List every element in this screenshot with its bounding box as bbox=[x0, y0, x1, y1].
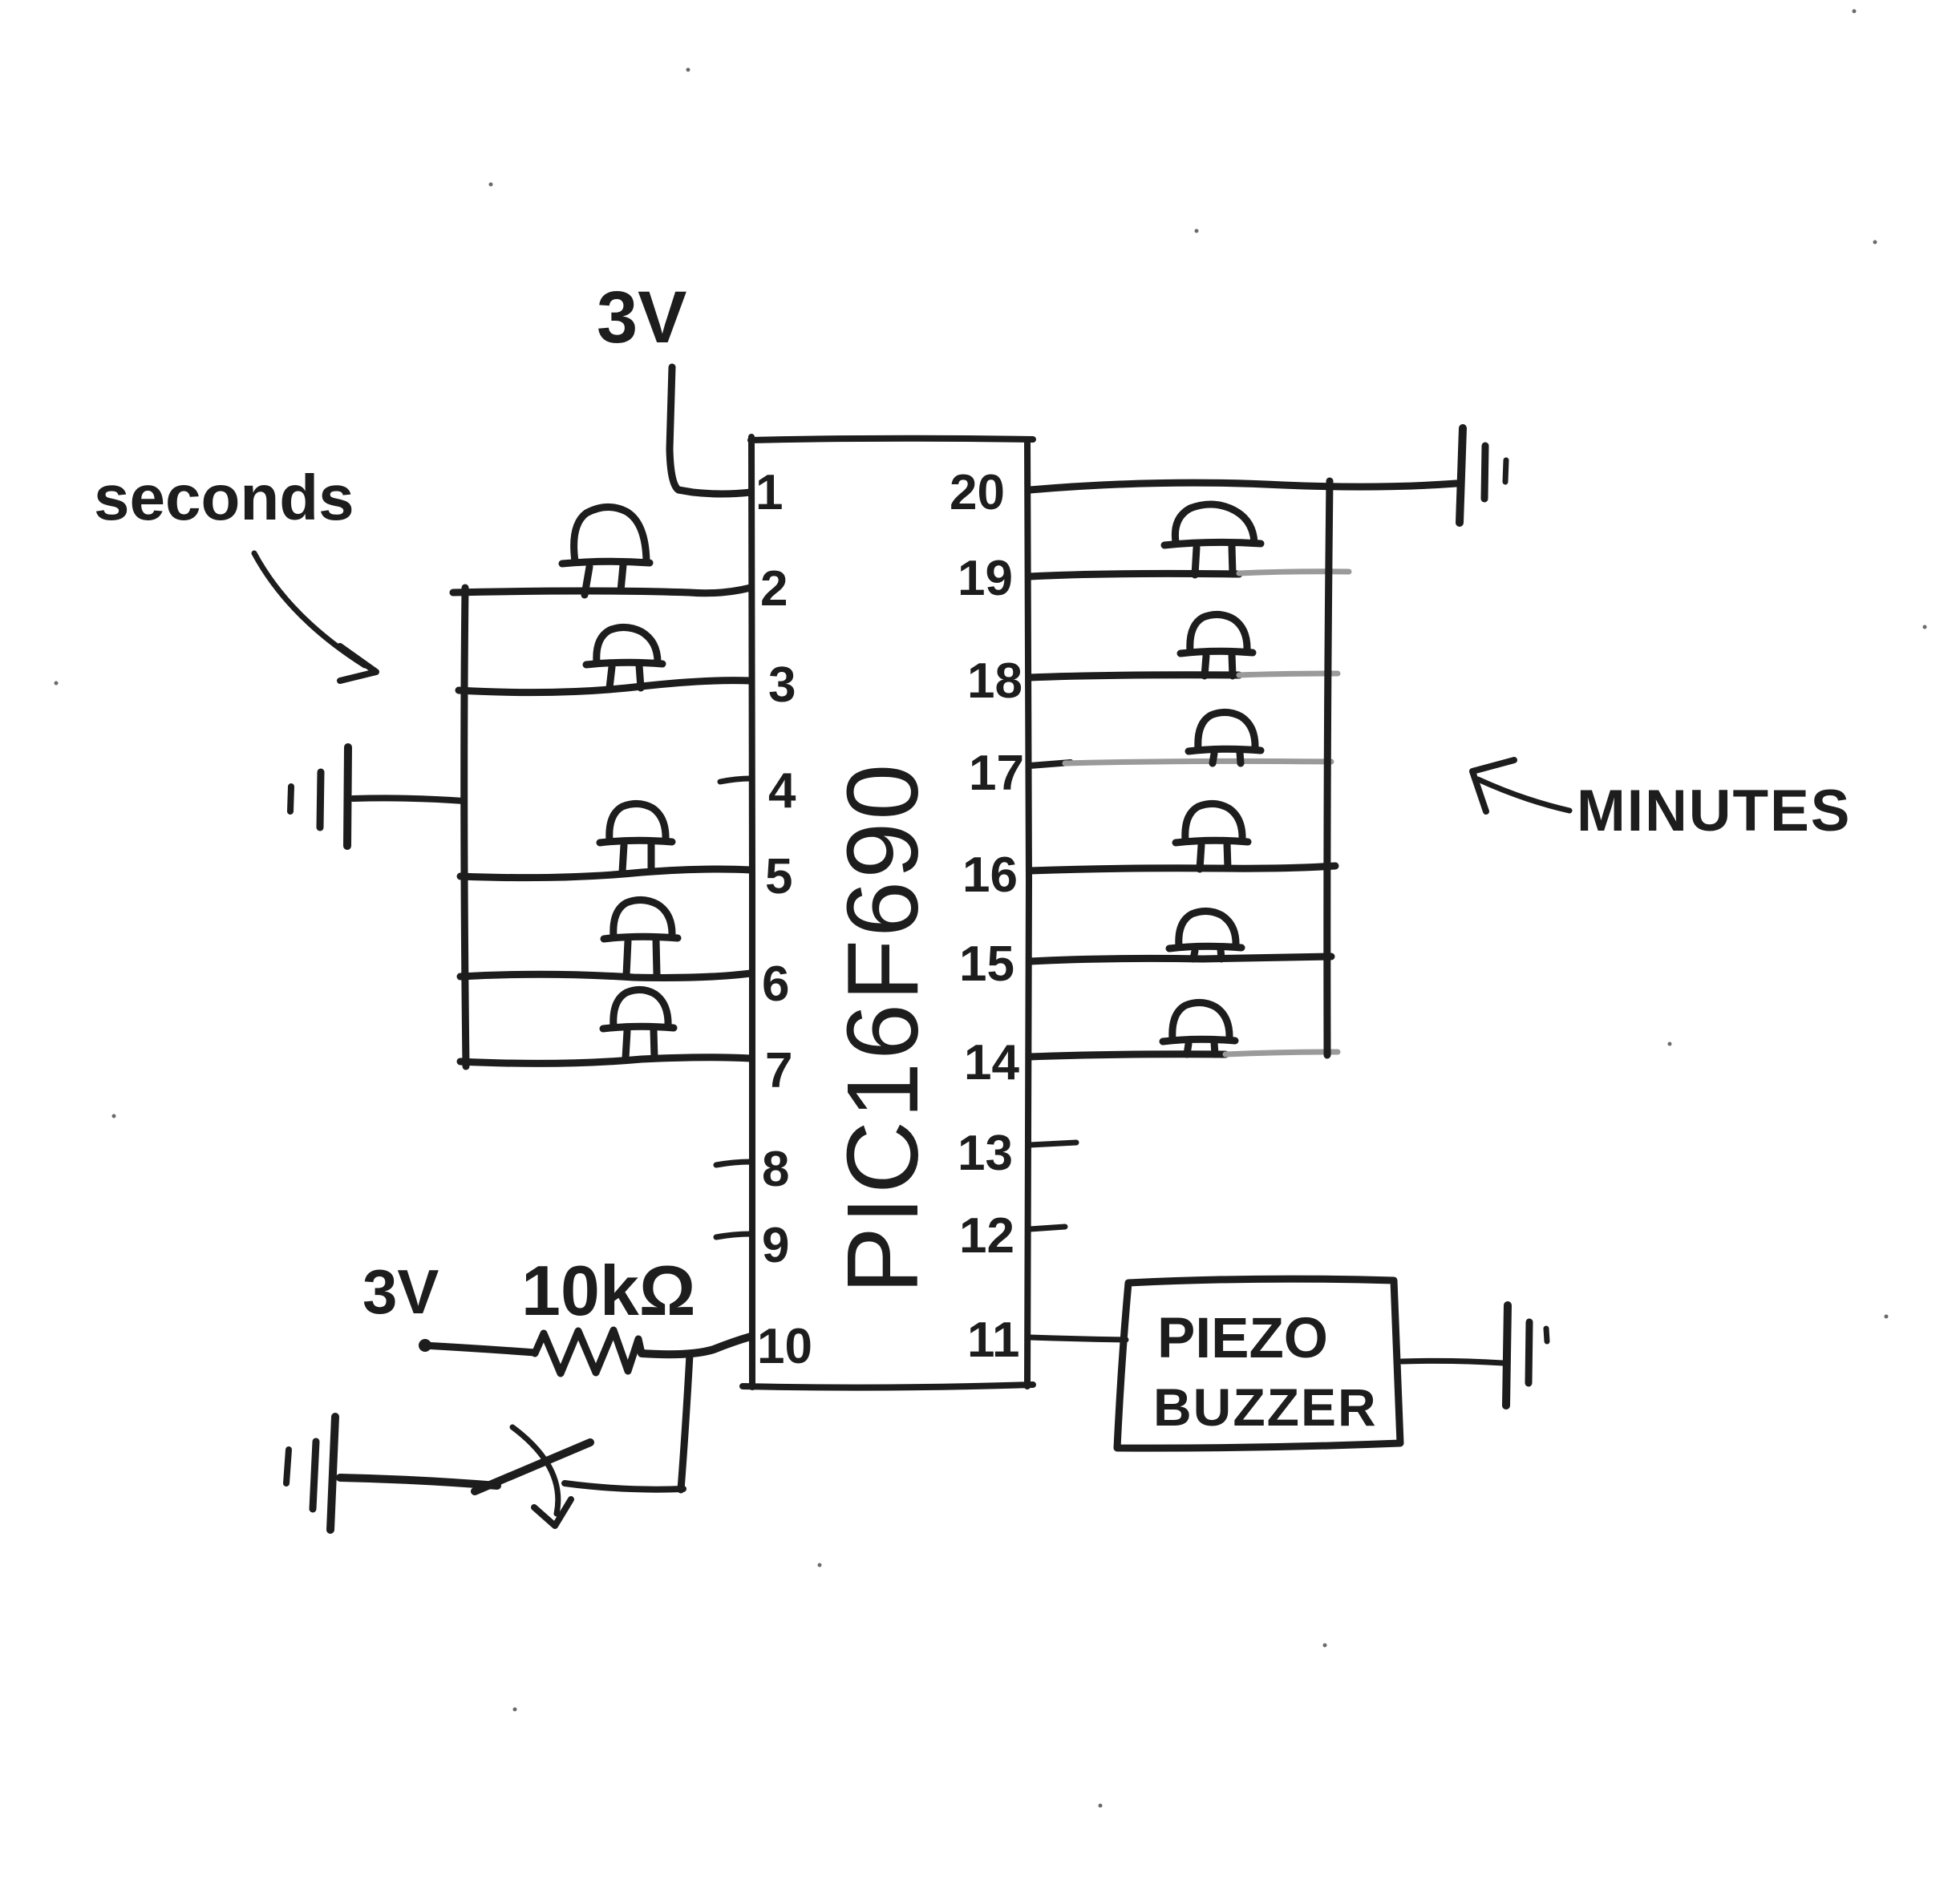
svg-text:MINUTES: MINUTES bbox=[1577, 779, 1852, 843]
wire from 3V to pin 1 bbox=[670, 367, 751, 494]
svg-text:9: 9 bbox=[762, 1218, 789, 1273]
wire pin7 to bus bbox=[460, 1058, 751, 1064]
svg-text:10: 10 bbox=[757, 1319, 812, 1374]
svg-text:12: 12 bbox=[959, 1208, 1014, 1264]
LED D5 (pin 7) bbox=[603, 989, 674, 1058]
svg-text:PIEZO: PIEZO bbox=[1157, 1307, 1328, 1370]
svg-text:16: 16 bbox=[962, 847, 1018, 903]
stub pin 8 bbox=[716, 1162, 751, 1165]
wire pin14 to bus bbox=[1030, 1054, 1225, 1057]
wire switch to junction bbox=[565, 1483, 683, 1490]
svg-text:7: 7 bbox=[765, 1043, 792, 1098]
arrow over switch bbox=[512, 1427, 558, 1514]
wire pin2 to bus bbox=[453, 588, 751, 593]
LED D4 (pin 6) bbox=[604, 900, 678, 975]
node left bus bbox=[464, 588, 466, 1066]
wire pin18 to bus bbox=[1030, 675, 1239, 677]
wire ground to switch bbox=[340, 1478, 497, 1486]
svg-text:15: 15 bbox=[959, 936, 1014, 992]
wire pin5 to bus bbox=[460, 869, 751, 878]
LED D9 (pin 16) bbox=[1176, 803, 1248, 869]
wire junction down to switch bbox=[681, 1355, 690, 1490]
wire pin11 to buzzer bbox=[1030, 1337, 1126, 1340]
arrow from seconds label bbox=[254, 553, 365, 665]
svg-text:2: 2 bbox=[760, 561, 788, 617]
wire pin17 to bus (faint) bbox=[1030, 762, 1071, 766]
svg-text:10kΩ: 10kΩ bbox=[521, 1251, 695, 1330]
stub pin 13 bbox=[1030, 1143, 1076, 1145]
LED D2 (pin 3) bbox=[586, 627, 662, 688]
LED D7 (pin 18) bbox=[1180, 614, 1253, 676]
svg-text:6: 6 bbox=[762, 957, 789, 1012]
resistor R1 10k bbox=[535, 1330, 642, 1373]
wire pin3 to bus bbox=[459, 681, 751, 693]
svg-text:17: 17 bbox=[969, 746, 1024, 801]
svg-text:4: 4 bbox=[768, 763, 796, 819]
svg-text:5: 5 bbox=[765, 849, 792, 904]
wire pin16 to bus bbox=[1030, 866, 1335, 871]
svg-text:3V: 3V bbox=[362, 1256, 439, 1327]
svg-text:11: 11 bbox=[967, 1313, 1020, 1368]
svg-text:PIC16F690: PIC16F690 bbox=[826, 762, 939, 1294]
node right bus bbox=[1327, 481, 1330, 1055]
piezo buzzer bbox=[1117, 1279, 1400, 1448]
svg-text:19: 19 bbox=[958, 551, 1013, 606]
IC U1 PIC16F690 (20-pin DIP body) bbox=[743, 437, 1033, 1388]
wire resistor to pin 10 bbox=[642, 1337, 751, 1354]
LED D1 (pin 2) bbox=[562, 507, 650, 595]
svg-text:13: 13 bbox=[958, 1126, 1013, 1181]
LED D11 (pin 14) bbox=[1163, 1002, 1235, 1054]
wire pin15 to bus bbox=[1030, 957, 1331, 961]
stub pin 9 bbox=[716, 1234, 751, 1237]
LED D6 (pin 19) bbox=[1164, 504, 1261, 575]
svg-text:BUZZER: BUZZER bbox=[1153, 1377, 1378, 1437]
svg-text:18: 18 bbox=[967, 653, 1023, 709]
stub pin 12 bbox=[1030, 1227, 1065, 1229]
wire pin20 to ground (top right) bbox=[1030, 483, 1456, 490]
stub pin 4 bbox=[720, 779, 751, 782]
wire 3V to resistor bbox=[423, 1345, 535, 1353]
LED D10 (pin 15) bbox=[1169, 911, 1241, 959]
ground (bottom right) bbox=[1506, 1305, 1547, 1406]
LED D8 (pin 17) bbox=[1189, 712, 1261, 763]
wire pin19 to bus bbox=[1030, 573, 1239, 576]
svg-text:1: 1 bbox=[755, 465, 783, 520]
ground (top right) bbox=[1460, 428, 1506, 523]
svg-text:20: 20 bbox=[950, 465, 1005, 520]
wire ground to left bus bbox=[353, 798, 464, 801]
LED D3 (pin 5) bbox=[600, 803, 672, 872]
switch SW1 (arm) bbox=[475, 1442, 590, 1491]
wire buzzer to ground bbox=[1402, 1361, 1503, 1363]
svg-text:8: 8 bbox=[762, 1142, 789, 1197]
svg-text:14: 14 bbox=[964, 1035, 1019, 1090]
svg-text:3V: 3V bbox=[597, 277, 687, 358]
arrow to minutes bbox=[1478, 779, 1569, 811]
ground (left, battery-style) bbox=[290, 747, 348, 846]
svg-text:seconds: seconds bbox=[94, 462, 354, 533]
ground (bottom left) bbox=[286, 1417, 335, 1530]
svg-text:3: 3 bbox=[768, 657, 796, 713]
wire pin6 to bus bbox=[460, 973, 751, 977]
